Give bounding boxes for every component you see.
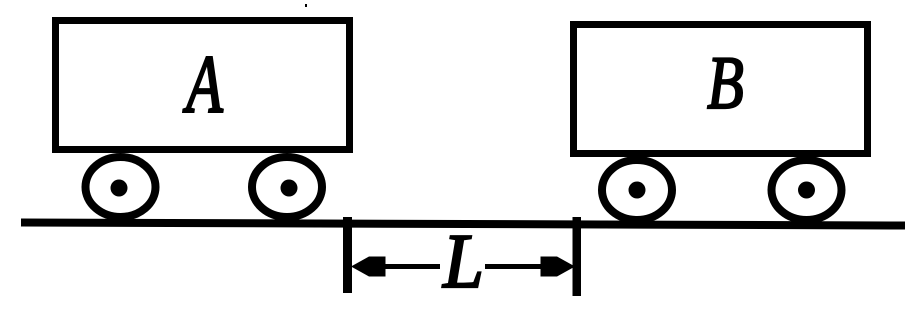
- ground line: [21, 223, 905, 226]
- hub B2: [798, 182, 815, 199]
- svg-text:L: L: [442, 219, 484, 304]
- hub B1: [629, 182, 646, 199]
- left arrow shaft: [383, 264, 440, 269]
- right tick: [573, 217, 582, 296]
- right arrow head: [541, 257, 576, 277]
- svg-text:A: A: [183, 39, 223, 131]
- wheel B2: [772, 160, 842, 220]
- wheel B1: [602, 160, 672, 220]
- left tick: [343, 217, 352, 293]
- scan speck: [305, 4, 307, 7]
- right arrow shaft: [485, 264, 542, 269]
- wheel A2: [252, 157, 322, 217]
- hub A1: [111, 180, 128, 197]
- wheel A1: [86, 157, 156, 217]
- left arrow head: [351, 257, 386, 277]
- svg-text:B: B: [707, 41, 744, 125]
- hub A2: [281, 180, 298, 197]
- cart A body: [56, 21, 350, 150]
- cart B body: [574, 25, 868, 154]
